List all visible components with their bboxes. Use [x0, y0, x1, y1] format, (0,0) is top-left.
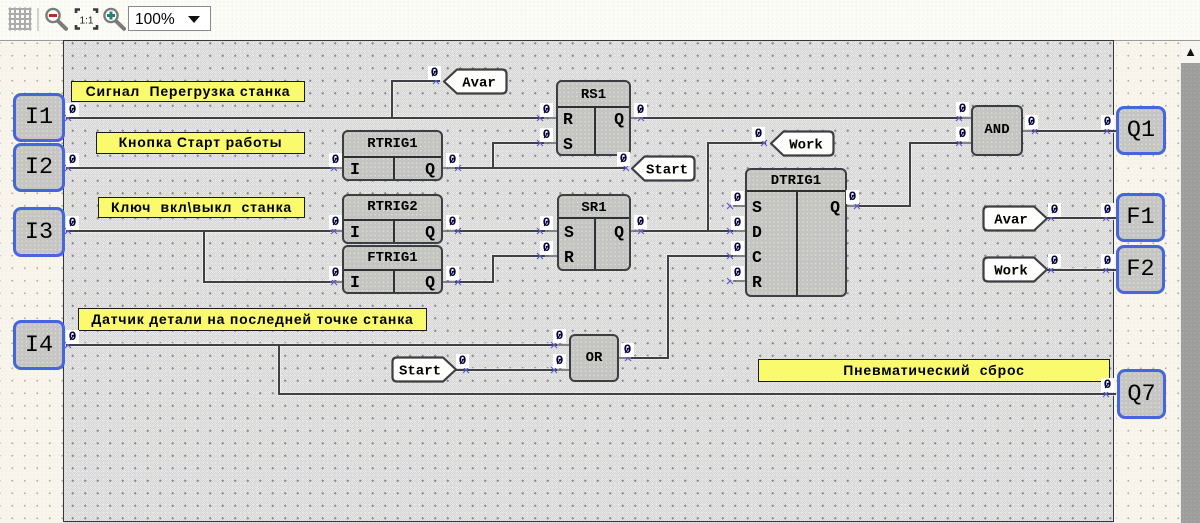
value 0 at tag Start2	[456, 354, 469, 369]
scrollbar up button	[1181, 41, 1200, 63]
value 0 at tag Work	[752, 127, 765, 142]
svg-text:1:1: 1:1	[80, 16, 94, 27]
right page margin	[1116, 41, 1180, 523]
value 0 at DTRIG1.R input	[731, 266, 744, 281]
pin stub OR.in2	[557, 369, 569, 371]
value 0 at tag Start	[617, 152, 630, 167]
value 0 at RTRIG1.Q output	[446, 153, 459, 168]
svg-text:Start: Start	[399, 364, 441, 380]
wire branch to tag Avar	[392, 81, 440, 118]
wire branch to RS1.S	[493, 143, 544, 168]
value 0 at SR1.Q output	[634, 215, 647, 230]
pin stub RTRIG1.Q	[443, 167, 455, 169]
wire SR1.Q to DTRIG1.D	[643, 230, 733, 232]
dropdown	[129, 7, 211, 31]
pin stub RS1.Q	[631, 117, 643, 119]
pin stub OR.in1	[557, 344, 569, 346]
grid icon	[9, 8, 32, 31]
value 0 at AND input 1	[956, 102, 969, 117]
value 0 at net Avar	[428, 66, 441, 81]
pin stub RTRIG1.I	[330, 167, 342, 169]
block RS1	[556, 80, 631, 156]
value 0 at RS1.R input	[540, 103, 553, 118]
value 0 at SR1.S input	[540, 216, 553, 231]
pin stub RS1.R	[544, 117, 557, 119]
value 0 at Q7 input	[1101, 378, 1114, 393]
value 0 at I3 output	[66, 216, 79, 231]
value 0 at F1 input	[1101, 203, 1114, 218]
pin stub SR1.R	[545, 255, 558, 257]
value 0 at I1 output	[66, 103, 79, 118]
wire RTRIG1.Q to tag Start	[455, 167, 627, 169]
value 0 at tag Work2	[1048, 254, 1061, 269]
value 0 at RS1.Q output	[634, 103, 647, 118]
svg-text:Start: Start	[646, 163, 688, 179]
separator	[37, 8, 39, 31]
wire I1 to RS1.R	[66, 117, 544, 119]
block RTRIG2	[342, 194, 443, 244]
block DTRIG1	[745, 168, 847, 297]
pin stub DTRIG1.D	[733, 230, 745, 232]
pin stub SR1.Q	[631, 230, 643, 232]
yellow comment label 2	[96, 132, 305, 154]
output block F1	[1116, 193, 1165, 242]
wire I3 to RTRIG2.I	[66, 230, 332, 232]
input block I3	[13, 207, 65, 257]
wire branch to tag Work	[708, 143, 766, 231]
value 0 at OR input 1	[553, 329, 566, 344]
value 0 at SR1.R input	[540, 241, 553, 256]
value 0 at DTRIG1.Q output	[846, 190, 859, 205]
wire I4 to OR.in1	[66, 344, 557, 346]
tag Avar (input of net Avar)	[393, 70, 1048, 382]
pin stub FTRIG1.Q	[443, 281, 455, 283]
tag Start2 (input to OR)	[393, 358, 457, 382]
value 0 at RTRIG1.I input	[329, 153, 342, 168]
1:1 icon	[76, 10, 97, 29]
pin stub FTRIG1.I	[330, 281, 342, 283]
block FTRIG1	[342, 245, 443, 294]
block AND	[971, 105, 1023, 156]
wire tag Start2 to OR.in2	[456, 369, 557, 371]
pin stub DTRIG1.C	[733, 255, 745, 257]
wire tag Work2 to F2	[1047, 269, 1116, 271]
value 0 at F2 input	[1101, 254, 1114, 269]
value 0 at FTRIG1.I input	[329, 266, 342, 281]
pin stub RTRIG2.I	[330, 230, 342, 232]
pin stub OR.out	[619, 357, 631, 359]
pin stub DTRIG1.Q	[847, 205, 859, 207]
value 0 at AND input 2	[956, 127, 969, 142]
pin stub AND.in1	[962, 117, 972, 119]
value 0 at OR output	[621, 343, 634, 358]
svg-text:Work: Work	[789, 138, 823, 154]
zoom in icon	[104, 9, 124, 29]
tag Work (output of net Work)	[771, 132, 834, 156]
svg-text:Avar: Avar	[462, 76, 496, 92]
wire OR.out to DTRIG1.C	[631, 256, 733, 358]
yellow comment label 4	[78, 308, 427, 331]
yellow comment label 1	[71, 81, 305, 102]
yellow comment label 5	[758, 359, 1110, 382]
svg-text:Work: Work	[994, 264, 1028, 280]
wire RTRIG2.Q to SR1.S	[455, 230, 545, 232]
svg-text:100%: 100%	[135, 11, 175, 28]
value 0 at FTRIG1.Q output	[446, 266, 459, 281]
block RTRIG1	[342, 130, 443, 181]
scrollbar thumb	[1181, 63, 1200, 523]
tag Avar2 (input to F1)	[984, 207, 1048, 231]
value 0 at AND output	[1025, 115, 1038, 130]
wire I2 to RTRIG1.I	[66, 167, 332, 169]
left page margin	[0, 41, 63, 523]
pin stub RS1.S	[544, 142, 557, 144]
wire white highlight halos	[66, 81, 1116, 394]
input block I2	[13, 143, 65, 192]
value 0 at tag Avar2	[1048, 203, 1061, 218]
output block Q1	[1116, 106, 1166, 155]
tag Work2 (input to F2)	[984, 258, 1048, 282]
wire branch to Q7	[279, 345, 1116, 394]
pin stub DTRIG1.S	[733, 205, 745, 207]
toolbar	[0, 0, 1200, 41]
input block I1	[13, 93, 65, 142]
value 0 at I2 output	[66, 153, 79, 168]
wire RS1.Q to AND.in1	[643, 117, 962, 119]
zoom out icon	[46, 9, 66, 29]
value 0 at RTRIG2.I input	[329, 215, 342, 230]
value 0 at RS1.S input	[540, 128, 553, 143]
value 0 at DTRIG1.S input	[731, 191, 744, 206]
wire branch to FTRIG1.I	[204, 231, 332, 282]
wire tag Avar2 to F1	[1047, 217, 1116, 219]
pin stub AND.in2	[962, 142, 972, 144]
block SR1	[557, 194, 631, 271]
toolbar icons svg	[0, 0, 230, 40]
pin stub AND.out	[1022, 130, 1032, 132]
tag Start (output of net Start)	[632, 157, 695, 181]
pin stub DTRIG1.R	[733, 280, 745, 282]
wire FTRIG1.Q to SR1.R	[455, 256, 545, 282]
pin stub SR1.S	[545, 230, 558, 232]
value 0 at I4 output	[66, 330, 79, 345]
output block Q7	[1117, 369, 1166, 419]
value 0 at DTRIG1.C input	[731, 241, 744, 256]
input block I4	[13, 320, 65, 370]
wire DTRIG1.Q to AND.in2	[859, 143, 962, 206]
vertical scrollbar track	[1180, 41, 1200, 523]
output block F2	[1116, 245, 1165, 294]
wire AND.out to Q1	[1032, 130, 1116, 132]
value 0 at Q1 input	[1101, 115, 1114, 130]
value 0 at DTRIG1.D input	[731, 216, 744, 231]
connection X marks	[65, 78, 1110, 397]
value 0 at RTRIG2.Q output	[446, 215, 459, 230]
pin stub RTRIG2.Q	[443, 230, 455, 232]
block OR	[569, 334, 619, 382]
svg-text:Avar: Avar	[994, 213, 1028, 229]
value 0 at OR input 2	[553, 354, 566, 369]
yellow comment label 3	[98, 197, 305, 218]
